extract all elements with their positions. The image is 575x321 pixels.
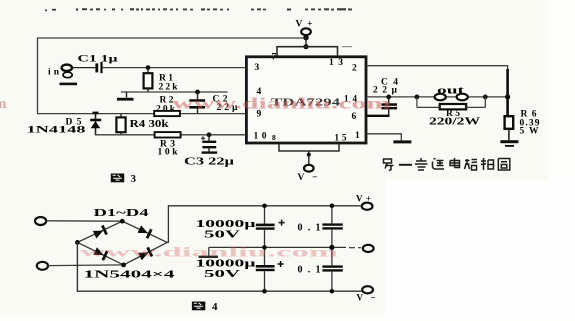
wire left vertical drop <box>37 38 39 114</box>
capacitor C2 22µ <box>189 92 238 114</box>
wire pins 8-15 bottom bus <box>279 144 339 151</box>
wire stby bus (left of R3) <box>95 134 155 136</box>
label fig 4 (图 4) <box>192 301 218 313</box>
terminal OUT <box>435 86 468 101</box>
svg-text:8: 8 <box>272 133 276 142</box>
svg-text:50V: 50V <box>204 230 242 241</box>
ground (pin 1) <box>393 140 411 143</box>
wire mute bus (right of R2, to pin 9) <box>180 113 246 115</box>
wire AC1 to bridge top <box>46 220 122 222</box>
svg-text:in: in <box>48 68 60 78</box>
node 0.1 top rail <box>330 204 335 209</box>
node C6 bottom rail <box>262 289 267 294</box>
wire supply bus scan dashes <box>342 46 352 48</box>
wire pin 2 feedback top <box>366 66 508 116</box>
diode D3 (lower-left) <box>93 247 108 261</box>
op-amp U1 TDA7294 <box>246 57 366 143</box>
node C5 mid rail <box>262 245 267 250</box>
svg-text:10000µ: 10000µ <box>196 219 256 230</box>
terminal V- (fig4) <box>357 286 376 302</box>
svg-text:R4 30k: R4 30k <box>130 119 170 130</box>
node R5 left <box>415 95 420 100</box>
svg-text:C3 22µ: C3 22µ <box>184 157 234 168</box>
svg-text:0.1: 0.1 <box>298 223 321 234</box>
wire V+ down to supply bus <box>305 38 307 47</box>
svg-text:0.1: 0.1 <box>298 265 321 276</box>
wire 0V dash to terminal <box>349 247 361 249</box>
svg-text:D1~D4: D1~D4 <box>94 208 150 219</box>
node feedback-output junction <box>505 94 510 99</box>
node C2 top <box>195 90 200 95</box>
ground (0V rail) <box>199 247 218 258</box>
diode D1 (upper-left) <box>92 225 107 239</box>
svg-text:22µ: 22µ <box>373 86 398 96</box>
svg-text:m: m <box>0 96 7 112</box>
wire 0V rail <box>209 246 346 248</box>
label fig 3 (图 3) <box>111 173 137 185</box>
node 0.1 mid rail <box>329 245 334 250</box>
svg-text:10000µ: 10000µ <box>196 259 256 270</box>
capacitor 0.1 (top) <box>298 206 343 248</box>
svg-text:www.dianliu.com: www.dianliu.com <box>80 245 340 260</box>
svg-text:7: 7 <box>272 53 277 63</box>
wire feedback vertical bold <box>506 69 509 116</box>
bridge rectifier D1-D4 diamond <box>75 219 167 267</box>
wire AC2 to bridge bottom <box>48 264 123 267</box>
svg-text:10k: 10k <box>158 148 179 158</box>
text channel note (另一声道电路相同) <box>384 158 510 171</box>
node R1 top <box>146 65 151 70</box>
terminal V- <box>298 165 318 183</box>
resistor R3 10k <box>155 132 181 157</box>
capacitor C1 1µ <box>78 55 119 74</box>
wire stby bus (right of R3, to pin 10) <box>181 134 246 136</box>
diode D5 1N4148 <box>27 114 102 136</box>
wire pin 6 bootstrap <box>366 115 390 117</box>
wire C1 to pin 3 <box>103 67 246 69</box>
wire in to C1 <box>72 67 95 69</box>
terminal V+ <box>296 20 313 41</box>
node C3 top <box>207 132 212 137</box>
wire V- rail <box>77 242 361 291</box>
svg-text:1: 1 <box>355 131 360 141</box>
node V- <box>307 153 311 157</box>
svg-text:1N4148: 1N4148 <box>27 126 86 136</box>
resistor R6 0.39/5W <box>505 110 540 141</box>
svg-text:1N5404×4: 1N5404×4 <box>84 269 176 281</box>
wire output from pin 14 <box>366 96 508 98</box>
wire V+ rail <box>167 206 360 243</box>
node C4 top <box>386 95 391 100</box>
terminal AC2 <box>37 262 48 270</box>
svg-text:3: 3 <box>255 63 260 73</box>
diode D2 (upper-right) <box>137 225 152 239</box>
capacitor C4 22µ <box>373 78 398 116</box>
resistor R5 220/2W <box>417 97 485 128</box>
capacitor C6 10000µ/50V (bottom) <box>196 247 284 291</box>
resistor R2 20k <box>154 96 180 117</box>
resistor R1 22k <box>144 68 179 93</box>
terminal IN <box>48 65 77 86</box>
wire R1 bottom bus <box>121 91 228 93</box>
wire pin 1 to ground <box>366 134 401 141</box>
svg-text:5W: 5W <box>520 127 540 137</box>
node 0.1 bottom rail <box>330 289 335 294</box>
svg-text:220/2W: 220/2W <box>429 117 480 128</box>
terminal 0 <box>363 245 374 252</box>
node D5 top <box>93 112 99 115</box>
wire pin7-pin13 supply bus <box>277 47 338 57</box>
node R5 right <box>483 95 488 100</box>
wire to V- terminal <box>308 151 310 165</box>
terminal AC1 <box>35 217 46 225</box>
svg-text:3: 3 <box>131 173 137 185</box>
terminal V+ (fig4) <box>356 194 373 210</box>
capacitor C5 10000µ/50V (top) <box>196 206 285 248</box>
wire mute bus (left of R2) <box>37 113 154 115</box>
wire V+ feed (top horizontal) <box>37 37 306 39</box>
ground (R1 bus) <box>117 92 134 101</box>
svg-text:4: 4 <box>212 301 218 313</box>
node C5 top rail <box>262 204 267 209</box>
resistor R4 30k <box>116 114 169 135</box>
svg-text:6: 6 <box>352 112 357 122</box>
capacitor 0.1 (bottom) <box>298 247 343 291</box>
svg-text:50V: 50V <box>204 269 242 280</box>
svg-text:22k: 22k <box>159 83 179 93</box>
ground (R6) <box>500 140 518 147</box>
diode D4 (lower-right) <box>138 247 153 261</box>
svg-text:www.dianliu.com: www.dianliu.com <box>172 96 391 113</box>
capacitor C3 22µ <box>184 135 234 168</box>
svg-text:2: 2 <box>352 64 357 74</box>
svg-text:C1 1µ: C1 1µ <box>78 55 119 65</box>
node V+ on supply bus <box>303 44 308 49</box>
